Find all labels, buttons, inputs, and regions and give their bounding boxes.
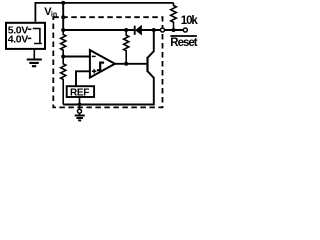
svg-text:4.0V: 4.0V — [8, 34, 28, 46]
svg-text:Reset: Reset — [170, 37, 197, 49]
svg-text:10k: 10k — [181, 15, 199, 27]
svg-text:in: in — [51, 12, 57, 19]
svg-text:REF: REF — [70, 87, 89, 98]
